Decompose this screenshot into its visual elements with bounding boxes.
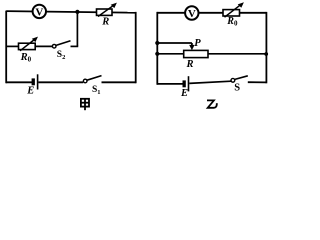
wire: bottom wire battery to switch S <box>189 81 231 83</box>
node junction dot right <box>264 52 268 56</box>
switch S2 blade <box>56 41 71 46</box>
rheostat R0' arrow <box>225 4 242 17</box>
rheostat R arrow <box>98 5 115 17</box>
svg-text:R: R <box>185 59 193 70</box>
wire: R right end lead <box>208 53 266 55</box>
switch S blade <box>235 76 248 80</box>
potentiometer R box <box>184 50 208 57</box>
wire: middle branch between R0 and S2 <box>35 45 52 47</box>
wire: middle branch left segment <box>6 45 18 47</box>
svg-text:P: P <box>194 38 201 49</box>
battery E2 negative plate (short thick) <box>183 80 186 87</box>
wire: wiper horizontal <box>157 42 192 44</box>
rheostat R0 box <box>19 43 36 49</box>
switch S2 contact circle <box>52 44 56 48</box>
rheostat R0 arrow <box>20 39 36 51</box>
battery E1 negative plate (short thick) <box>32 78 35 85</box>
wire: middle branch vertical riser <box>76 12 78 47</box>
node junction dot wiper <box>155 41 159 45</box>
rheostat R box <box>97 9 113 15</box>
wire: bottom wire right of S <box>248 81 267 83</box>
wire: left circuit bottom wire left of battery <box>6 81 32 83</box>
wire: left circuit right edge <box>135 12 137 83</box>
wire: R left end lead <box>157 53 183 55</box>
wire: left circuit left edge <box>5 11 7 84</box>
wire: bottom wire right of S1 <box>102 81 136 83</box>
label 甲 (drawn) <box>81 99 89 110</box>
svg-text:S: S <box>234 83 240 94</box>
wire: right circuit left vertical <box>156 12 158 85</box>
wire: right circuit right vertical <box>265 12 267 83</box>
node junction dot left end of R <box>155 52 159 56</box>
svg-text:V: V <box>35 7 43 19</box>
svg-text:R: R <box>101 17 109 28</box>
wire: left circuit top wire <box>6 11 136 13</box>
battery E2 positive plate (long thin) <box>188 76 190 91</box>
potentiometer wiper arrow P <box>191 43 193 47</box>
wire: bottom wire between battery and S1 <box>38 81 83 83</box>
wire: right circuit bottom left corner segment <box>157 83 182 85</box>
svg-text:E: E <box>180 88 188 99</box>
voltmeter V1 circle <box>33 5 46 18</box>
wire: middle branch right stub <box>71 45 79 47</box>
svg-text:E: E <box>26 85 34 96</box>
wire: right circuit top wire <box>157 12 266 14</box>
label 乙 (drawn) <box>207 100 217 107</box>
voltmeter V2 circle <box>185 6 198 19</box>
switch S1 contact circle <box>83 79 87 83</box>
rheostat R0' box <box>223 10 240 16</box>
switch S contact circle <box>231 78 235 82</box>
switch S1 blade <box>87 76 102 81</box>
node junction dot top (middle branch to top wire) <box>75 10 79 14</box>
battery E1 positive plate (long thin) <box>37 74 39 89</box>
svg-text:V: V <box>188 8 196 20</box>
